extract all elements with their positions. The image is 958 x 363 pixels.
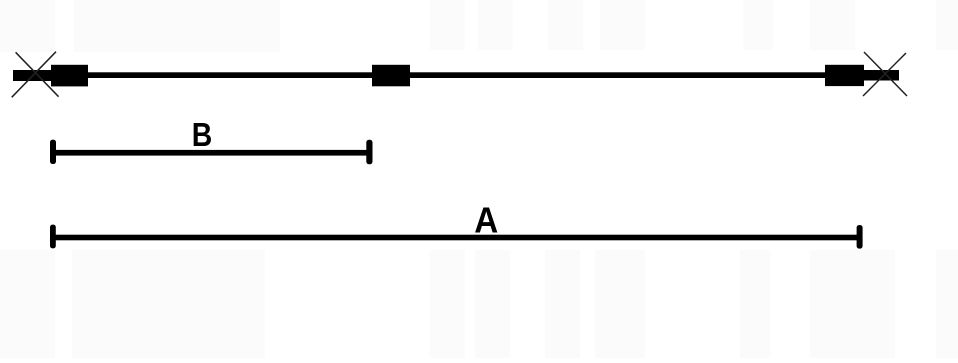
faint background band group bottom — [0, 250, 958, 358]
svg-text:A: A — [474, 200, 498, 241]
right X mark — [863, 52, 907, 96]
segment A right tick — [857, 225, 863, 249]
wire: top main horizontal line — [13, 72, 899, 78]
segment B left tick — [50, 140, 56, 164]
segment A line — [50, 235, 863, 241]
faint background band group top — [0, 0, 958, 52]
right end thick bar — [864, 70, 899, 81]
segment B right tick — [366, 140, 372, 164]
left box — [51, 65, 88, 87]
left X mark — [12, 52, 59, 98]
segment A left tick — [50, 225, 56, 249]
middle box — [372, 65, 410, 87]
svg-text:B: B — [192, 116, 213, 153]
segment B line — [50, 150, 373, 156]
right box — [825, 65, 864, 86]
left end thick bar — [13, 70, 51, 81]
